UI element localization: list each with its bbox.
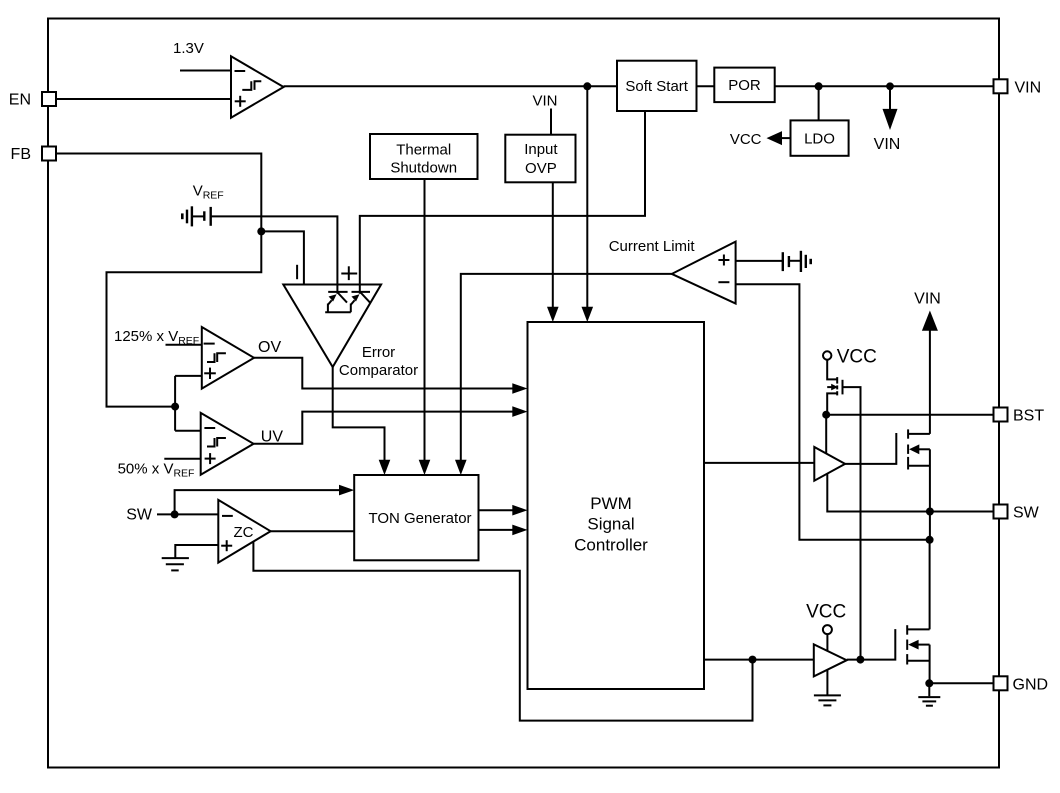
svg-text:Comparator: Comparator (339, 362, 418, 379)
wire U6 plus input to threshold battery (736, 260, 783, 262)
svg-text:Soft Start: Soft Start (625, 78, 688, 95)
block Input OVP (505, 135, 575, 183)
wire Q2 source/body to GND node (929, 645, 931, 684)
ground (low-side driver) (814, 695, 841, 705)
transistor Q3 (BST refresh switch) (827, 377, 842, 415)
wire PWM controller high-side output to driver U7 (704, 462, 814, 464)
diode D2 (soft-start clamp inside error comparator) (351, 292, 370, 312)
svg-text:Input: Input (524, 141, 558, 158)
wire EN pin to comparator U1 plus input (56, 98, 231, 100)
wire U8 lower rail to ground (826, 670, 828, 695)
wire U6 output to TON Generator (455, 274, 672, 475)
pin VIN (994, 79, 1042, 96)
wire FB node down-left to OV/UV comparator inputs (107, 231, 262, 406)
wire SW stub to node (157, 513, 218, 515)
wire Thermal Shutdown output down to TON Generator (419, 179, 431, 475)
wire ZC lower feedback to gate-drive node (253, 541, 752, 720)
wire Q3 gate to low-side gate node (843, 387, 861, 659)
ground (power ground at Q2) (918, 697, 940, 706)
svg-text:Thermal: Thermal (396, 141, 451, 158)
pin GND (994, 676, 1049, 693)
svg-text:SW: SW (1013, 505, 1040, 522)
wire GND node to GND pin (929, 682, 993, 684)
svg-text:VIN: VIN (1015, 79, 1042, 96)
wire 1.3V stub to U1 minus input (180, 70, 231, 72)
node junction GND (925, 679, 933, 687)
wire diode anode rail (325, 311, 351, 313)
VCC terminal circle (low-side driver) (823, 625, 832, 634)
wire junction down to LDO (818, 86, 820, 120)
comparator U6 (current limit) (672, 242, 736, 304)
diode D1 (VREF clamp inside error comparator) (328, 292, 348, 312)
wire PWM controller low-side output to driver U8 (704, 659, 814, 661)
svg-text:Error: Error (362, 344, 395, 361)
node junction current sense (926, 536, 934, 544)
wire TON Generator output 2 to PWM controller (479, 525, 528, 536)
svg-text:POR: POR (728, 77, 761, 94)
wire ZC output to TON Generator (271, 530, 355, 532)
U2 plus input marker (341, 266, 357, 280)
wire Soft Start output down to error comparator second plus diode (360, 111, 645, 294)
wire Q1 drain to VIN arrow (922, 311, 938, 434)
wire junction vertical linking OV+ and UV- (174, 376, 176, 431)
pin BST (994, 408, 1045, 425)
node junction OV plus / UV minus (171, 403, 179, 411)
wire VIN stub into Input OVP (550, 109, 552, 135)
comparator U1 (EN, 1.3V threshold) (231, 56, 284, 117)
comparator U3 (OV) (202, 327, 254, 389)
wire U7 lower rail to SW (827, 474, 993, 512)
wire SW node down to sense junction (929, 512, 931, 540)
svg-text:VIN: VIN (914, 291, 941, 308)
svg-text:VCC: VCC (837, 347, 877, 368)
svg-text:VIN: VIN (874, 136, 901, 153)
wire GND node down to ground symbol (928, 683, 930, 696)
block TON Generator (354, 475, 478, 560)
svg-text:LDO: LDO (804, 130, 835, 147)
svg-text:OV: OV (258, 339, 281, 356)
node SW junction (171, 510, 179, 518)
wire OV output to PWM Signal Controller (254, 358, 528, 394)
svg-text:VCC: VCC (806, 602, 846, 623)
wire sense node down to Q2 drain (929, 540, 931, 630)
wire BST node down to driver U7 supply (825, 415, 827, 454)
svg-text:EN: EN (9, 92, 31, 109)
node FB junction (257, 227, 265, 235)
pin SW (994, 505, 1040, 522)
wire Q1 source/body to SW node (929, 449, 931, 511)
svg-text:ZC: ZC (234, 524, 254, 541)
svg-text:Shutdown: Shutdown (390, 160, 457, 177)
wire VCC to Q3 drain (827, 360, 837, 380)
wire Soft Start to POR (697, 85, 715, 87)
svg-text:GND: GND (1013, 676, 1049, 693)
node junction on rail feeding PWM controller (583, 82, 591, 90)
wire OV comparator plus input (175, 375, 202, 377)
wire error comparator output to TON Generator (333, 367, 391, 475)
driver U8 (low-side gate driver) (814, 644, 847, 676)
node junction Q3 gate tap (856, 656, 864, 664)
wire U8 output to Q2 gate (847, 629, 896, 660)
battery B1 (VREF reference source) (182, 206, 210, 226)
wire VIN arrow down (883, 86, 898, 130)
node junction rail to VIN arrow (886, 82, 894, 90)
wire 125% VREF stub to OV comparator minus (166, 344, 202, 346)
svg-text:FB: FB (11, 146, 31, 163)
svg-text:PWM: PWM (590, 494, 632, 513)
svg-text:TON Generator: TON Generator (368, 510, 471, 527)
op-amp U2 error comparator body (283, 285, 381, 368)
svg-text:1.3V: 1.3V (173, 40, 204, 57)
wire 50% VREF stub to UV comparator plus (164, 458, 200, 460)
wire LDO output arrow to VCC (767, 131, 791, 145)
block Soft Start (617, 61, 697, 111)
transistor Q1 (high-side NMOS) (908, 429, 930, 469)
svg-text:Signal: Signal (587, 515, 634, 534)
svg-text:50% x VREF: 50% x VREF (118, 461, 195, 480)
ground (ZC plus reference) (162, 558, 189, 570)
wire Input OVP output down to PWM Signal Controller (547, 182, 559, 322)
node junction rail to LDO (815, 82, 823, 90)
svg-text:BST: BST (1013, 408, 1044, 425)
pin EN (9, 92, 56, 109)
wire UV comparator minus input (175, 430, 201, 432)
comparator U4 (UV) (201, 413, 254, 475)
wire POR to VIN pin (775, 85, 994, 87)
wire BST rail to BST pin (826, 414, 993, 416)
svg-text:OVP: OVP (525, 160, 557, 177)
wire SW node up to TON Generator input (175, 485, 355, 515)
battery B2 (current limit threshold) (783, 251, 811, 272)
svg-text:SW: SW (126, 507, 153, 524)
svg-text:VCC: VCC (730, 131, 762, 148)
svg-text:Controller: Controller (574, 535, 648, 554)
driver U7 (high-side gate driver) (814, 447, 845, 481)
block Thermal Shutdown (370, 134, 478, 179)
wire U6 minus input from SW sense node (736, 284, 930, 540)
node junction SW (926, 508, 934, 516)
wire TON Generator output 1 to PWM controller (479, 505, 528, 516)
node junction low-side gate feedback (749, 656, 757, 664)
svg-text:VREF: VREF (193, 183, 224, 202)
svg-text:VIN: VIN (532, 93, 557, 110)
wire junction down to PWM Signal Controller top (586, 86, 588, 313)
block LDO (791, 120, 849, 155)
wire UV output to PWM Signal Controller (254, 406, 528, 444)
VCC terminal circle (boost switch) (823, 351, 831, 359)
svg-text:Current Limit: Current Limit (609, 238, 696, 255)
wire VCC to driver U8 top (826, 634, 828, 651)
U2 minus input marker (296, 265, 298, 279)
block PWM Signal Controller (528, 322, 705, 689)
wire U7 output to Q1 gate (845, 433, 896, 464)
wire U1 output to Soft Start (VIN rail) (284, 85, 617, 87)
wire VREF battery to error comparator plus diode (211, 216, 338, 293)
wire ZC plus input from ground (175, 545, 218, 558)
pin FB (11, 146, 56, 163)
node junction BST (822, 411, 830, 419)
transistor Q2 (low-side NMOS) (907, 625, 929, 664)
block POR (714, 68, 774, 103)
comparator U5 (ZC zero cross) (218, 500, 270, 563)
wire FB node to error comparator minus input (261, 231, 304, 284)
wire FB pin down to feedback node (56, 154, 261, 232)
